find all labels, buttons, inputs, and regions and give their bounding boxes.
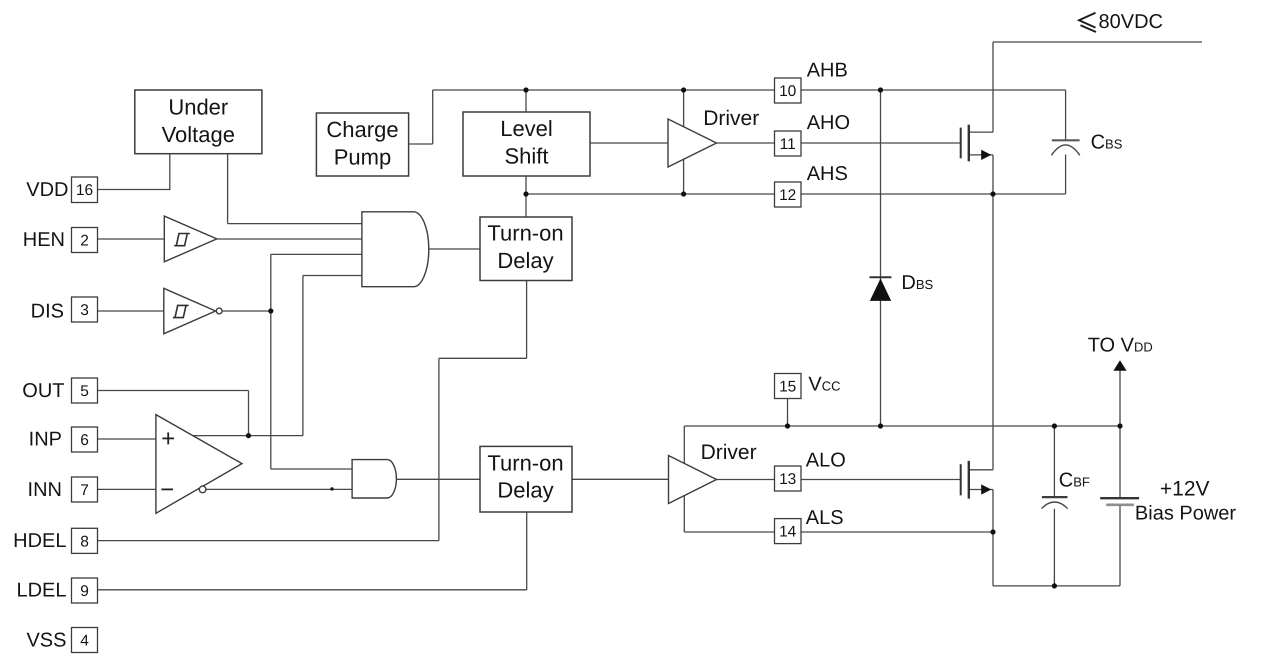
svg-text:Turn-on: Turn-on <box>487 450 563 475</box>
svg-text:AHS: AHS <box>807 163 848 185</box>
svg-text:ALS: ALS <box>806 507 844 529</box>
svg-text:+12V: +12V <box>1160 478 1210 501</box>
svg-text:DIS: DIS <box>31 301 64 323</box>
svg-text:6: 6 <box>80 432 89 449</box>
svg-text:Pump: Pump <box>334 145 391 170</box>
svg-text:INP: INP <box>29 429 62 451</box>
svg-text:7: 7 <box>80 482 89 499</box>
svg-text:Delay: Delay <box>497 478 553 503</box>
svg-text:15: 15 <box>779 379 796 396</box>
svg-text:4: 4 <box>80 633 89 650</box>
svg-text:12: 12 <box>779 187 796 204</box>
svg-text:Turn-on: Turn-on <box>487 221 563 246</box>
svg-text:Shift: Shift <box>504 144 548 169</box>
svg-text:13: 13 <box>779 471 796 488</box>
svg-text:Bias Power: Bias Power <box>1135 503 1236 525</box>
svg-text:Driver: Driver <box>703 107 759 130</box>
svg-text:80VDC: 80VDC <box>1099 11 1163 33</box>
svg-text:AHO: AHO <box>807 112 850 134</box>
svg-text:Under: Under <box>168 94 228 119</box>
svg-text:VSS: VSS <box>26 630 66 652</box>
svg-text:INN: INN <box>28 479 62 501</box>
svg-text:Charge: Charge <box>326 117 398 142</box>
svg-text:3: 3 <box>80 302 89 319</box>
svg-text:VDD: VDD <box>26 179 68 201</box>
svg-text:5: 5 <box>80 383 89 400</box>
svg-text:9: 9 <box>80 583 89 600</box>
svg-text:8: 8 <box>80 534 89 551</box>
svg-text:Delay: Delay <box>497 248 553 273</box>
svg-text:Driver: Driver <box>701 441 757 464</box>
svg-text:10: 10 <box>779 83 797 100</box>
svg-text:ALO: ALO <box>806 449 846 471</box>
svg-text:OUT: OUT <box>22 380 64 402</box>
svg-text:HDEL: HDEL <box>13 530 66 552</box>
svg-text:Level: Level <box>500 116 553 141</box>
svg-text:Voltage: Voltage <box>162 122 235 147</box>
svg-text:HEN: HEN <box>23 229 65 251</box>
svg-text:LDEL: LDEL <box>16 580 66 602</box>
svg-text:16: 16 <box>76 182 93 199</box>
svg-text:2: 2 <box>80 233 89 250</box>
svg-text:AHB: AHB <box>807 60 848 82</box>
svg-text:11: 11 <box>780 136 796 153</box>
svg-text:14: 14 <box>779 524 797 541</box>
